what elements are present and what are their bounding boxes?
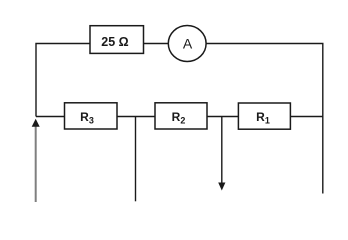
svg-text:25 Ω: 25 Ω: [101, 35, 128, 49]
svg-text:A: A: [183, 36, 193, 52]
